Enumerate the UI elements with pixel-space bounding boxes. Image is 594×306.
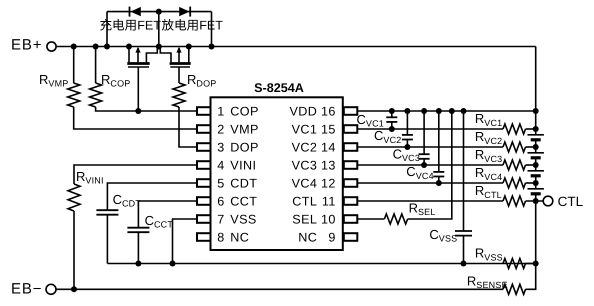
node EB+ rail junction [186, 44, 192, 50]
svg-text:VSS: VSS [230, 212, 256, 226]
pin 4 VINI [197, 158, 256, 172]
node EB+ rail junction [126, 44, 132, 50]
pin 14 VC2 [292, 140, 358, 154]
wire diode center drop [158, 12, 160, 47]
node EB+ rail junction [156, 44, 162, 50]
capacitor CCDT [96, 183, 197, 215]
pin 6 CCT [197, 194, 257, 208]
node VDD junction CVC4 [436, 108, 442, 114]
node CVSS VSS junction [461, 261, 467, 267]
svg-text:EB−: EB− [11, 281, 42, 298]
wire RVMP to VMP pin [74, 107, 197, 129]
wire SEL pin 10 [357, 218, 385, 220]
wire EB+ rail [56, 46, 536, 48]
wire CTL pin [357, 200, 503, 202]
svg-text:VINI: VINI [230, 158, 256, 172]
wire RCOP to COP pin [96, 107, 197, 111]
svg-text:13: 13 [321, 158, 336, 172]
wire VC3 pin [357, 164, 503, 166]
resistor RVC3 [475, 147, 526, 170]
resistor RSEL [384, 201, 435, 225]
pin 12 VC4 [292, 176, 358, 190]
node CCCT VSS junction [135, 261, 141, 267]
pin 2 VMP [197, 122, 259, 136]
node RVINI EB- junction [71, 286, 77, 292]
svg-text:CTL: CTL [558, 194, 584, 209]
wire VSS row [107, 263, 535, 265]
svg-text:16: 16 [321, 104, 336, 118]
resistor RVMP [39, 47, 80, 108]
battery stack BT1-BT4 [528, 111, 544, 264]
diode D2 discharge-FET body [179, 7, 190, 17]
node VSS pin junction [170, 261, 176, 267]
svg-text:CDT: CDT [230, 176, 257, 190]
capacitor CVC3 [393, 111, 430, 165]
wire RVSS to stack [526, 263, 536, 265]
svg-text:12: 12 [321, 176, 336, 190]
diode D1 charge-FET body [130, 7, 141, 17]
pin 10 SEL [292, 212, 357, 226]
svg-text:15: 15 [321, 122, 336, 136]
node stack tap 3 [533, 162, 539, 168]
node COP gate junction [135, 108, 141, 114]
transistor Q2 discharge FET [160, 47, 190, 68]
wire CCDT to VSS row [106, 215, 108, 264]
wire VC2 pin [357, 146, 503, 148]
pin 7 VSS [197, 212, 257, 226]
svg-text:VC3: VC3 [292, 158, 318, 172]
resistor RVC1 [475, 111, 526, 134]
node EB+ rail junction [104, 44, 110, 50]
svg-text:VC2: VC2 [292, 140, 318, 154]
svg-text:8: 8 [217, 230, 224, 244]
node CVC2 to VC2 wire [404, 144, 410, 150]
svg-text:FET: FET [137, 19, 161, 33]
node EB+ rail junction [209, 44, 215, 50]
wire VDD pin 16 [357, 110, 536, 112]
wire RVINI to EB- rail [73, 211, 75, 289]
svg-text:SEL: SEL [292, 212, 317, 226]
node VDD junction CVSS [461, 108, 467, 114]
svg-text:CTL: CTL [292, 194, 317, 208]
wire Q1 gate to COP [137, 67, 139, 111]
node VDD junction CVC2 [404, 108, 410, 114]
pin 11 CTL [292, 194, 357, 208]
wire diode branch right drop [211, 12, 213, 47]
resistor RVINI [68, 165, 197, 211]
label discharge FET caption [162, 19, 223, 33]
resistor RCOP [90, 47, 131, 108]
svg-text:VC1: VC1 [292, 122, 318, 136]
svg-text:FET: FET [199, 19, 223, 33]
svg-text:NC: NC [230, 230, 249, 244]
resistor RVSS [475, 246, 526, 269]
svg-text:VDD: VDD [290, 104, 318, 118]
wire RVC2 to stack [526, 146, 536, 148]
capacitor CVC1 [357, 111, 398, 129]
node VDD stack top [533, 108, 539, 114]
pin 1 COP [197, 104, 259, 118]
wire EB+ rail drop to VDD node [535, 47, 537, 112]
wire RCTL to CTL terminal [526, 200, 544, 202]
svg-text:4: 4 [217, 158, 224, 172]
wire RDOP to DOP pin [179, 107, 197, 147]
wire EB- rail [56, 288, 503, 290]
capacitor CCCT [127, 201, 197, 232]
svg-text:VMP: VMP [230, 122, 258, 136]
node VDD junction CVC3 [421, 108, 427, 114]
node CVC1 to VC1 wire [389, 126, 395, 132]
wire RVC1 to stack [526, 128, 536, 130]
svg-text:11: 11 [322, 194, 336, 208]
pin 9 NC [298, 230, 357, 244]
svg-text:6: 6 [217, 194, 224, 208]
wire VC4 pin [357, 182, 503, 184]
svg-text:CCT: CCT [230, 194, 257, 208]
node stack tap 4 [533, 180, 539, 186]
node stack CTL junction [533, 198, 539, 204]
svg-text:9: 9 [328, 230, 335, 244]
node EB+ rail junction [71, 44, 77, 50]
capacitor CVSS [429, 111, 472, 264]
svg-text:EB+: EB+ [11, 37, 42, 54]
node stack tap 1 [533, 126, 539, 132]
svg-text:NC: NC [298, 230, 317, 244]
pin 16 VDD [290, 104, 358, 118]
pin 8 NC [197, 230, 249, 244]
svg-text:7: 7 [217, 212, 224, 226]
svg-text:14: 14 [321, 140, 336, 154]
wire CCCT to VSS row [137, 232, 139, 263]
resistor RVC4 [475, 165, 526, 188]
resistor RSENSE [467, 273, 526, 294]
wire Q2 gate lead [178, 67, 180, 83]
svg-text:COP: COP [230, 104, 258, 118]
capacitor CVC2 [374, 111, 413, 147]
resistor RDOP [173, 72, 217, 107]
svg-text:3: 3 [217, 140, 224, 154]
svg-text:2: 2 [217, 122, 224, 136]
wire VC1 pin [357, 128, 503, 130]
terminal EB+ [11, 37, 56, 54]
node EB+ rail junction [93, 44, 99, 50]
pin 3 DOP [197, 140, 259, 154]
node CVC4 to VC4 wire [436, 180, 442, 186]
wire diode branch left drop [106, 12, 108, 47]
wire RSEL column [408, 111, 452, 219]
transistor Q1 charge FET [127, 47, 157, 68]
terminal EB- [11, 281, 56, 298]
resistor RVC2 [475, 129, 526, 152]
wire RVC4 to stack [526, 182, 536, 184]
resistor RCTL [475, 183, 526, 206]
capacitor CVC4 [406, 111, 444, 183]
pin 13 VC3 [292, 158, 358, 172]
wire RSENSE to stack bottom [526, 264, 536, 290]
node stack tap 2 [533, 144, 539, 150]
svg-text:VC4: VC4 [292, 176, 318, 190]
node VDD junction RSEL [449, 108, 455, 114]
node CVC3 to VC3 wire [421, 162, 427, 168]
wire diode branch top [107, 11, 212, 13]
svg-text:5: 5 [217, 176, 224, 190]
wire RVC3 to stack [526, 164, 536, 166]
svg-text:10: 10 [321, 212, 336, 226]
wire VSS pin drop [173, 219, 198, 264]
label charge FET caption [100, 19, 161, 33]
op-amp U1 S-8254A body [211, 81, 343, 250]
node stack bottom junction [533, 261, 539, 267]
svg-text:S-8254A: S-8254A [254, 81, 304, 95]
terminal CTL [543, 194, 583, 209]
node VDD junction CVC1 [389, 108, 395, 114]
pin 15 VC1 [292, 122, 358, 136]
svg-text:1: 1 [217, 104, 224, 118]
svg-text:DOP: DOP [230, 140, 258, 154]
node diode center [156, 9, 162, 15]
pin 5 CDT [197, 176, 257, 190]
